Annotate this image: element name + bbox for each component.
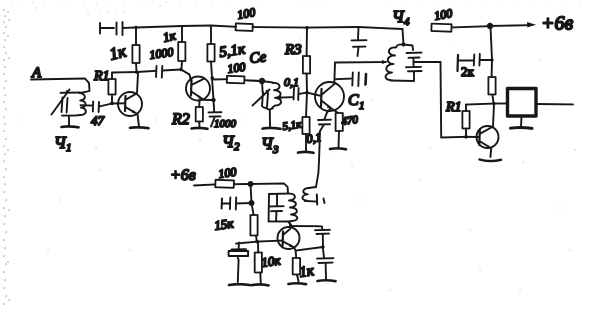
wire C1 collector to L4 — [335, 61, 386, 64]
wire cap 47 to Q1 base — [99, 103, 124, 106]
svg-text:100: 100 — [217, 165, 237, 181]
svg-text:+6в: +6в — [541, 13, 573, 35]
resistor 15k — [250, 203, 257, 242]
capacitor 1000 (emitter bypass) — [209, 100, 222, 127]
junction osc node2 — [249, 200, 255, 206]
svg-text:1к: 1к — [298, 263, 316, 281]
L4 tuning cap upper — [404, 45, 422, 63]
wire tank bottom to fb caps — [288, 222, 317, 227]
ground lead of L1 — [68, 116, 70, 126]
resistor 5,1k (Q2 collector load) — [207, 26, 214, 78]
wire base — [441, 136, 478, 139]
inductor L1 coil — [74, 93, 85, 116]
svg-text:5,1к: 5,1к — [218, 41, 247, 61]
capacitor 0,1 (mixer input) — [294, 88, 299, 101]
svg-text:2к: 2к — [461, 64, 475, 79]
wire osc emitter — [294, 247, 323, 251]
inductor L2 coil — [272, 83, 281, 108]
feedback capacitor upper — [315, 226, 330, 246]
svg-text:R1: R1 — [445, 100, 462, 115]
input terminal bar on rail — [99, 23, 101, 34]
ground Q5 emitter — [480, 160, 502, 162]
capacitor at node2 — [222, 198, 252, 210]
resistor 10k — [255, 242, 262, 283]
transistor Q4 (oscillator) — [278, 222, 300, 249]
ground 470 — [330, 147, 346, 151]
box quartz filter — [508, 89, 537, 117]
wire cap to node — [123, 27, 136, 30]
wire osc base — [236, 241, 283, 244]
wire L4 tap to output — [414, 61, 441, 63]
node big junction (L2 top) — [259, 78, 265, 84]
svg-text:3: 3 — [272, 144, 279, 156]
L4 tuning cap lower — [406, 62, 422, 81]
resistor 1k (first stage collector load) — [132, 28, 139, 72]
wire coil tap to cap 47 — [81, 104, 93, 106]
svg-text:1к: 1к — [107, 41, 129, 64]
ground 1k — [289, 282, 307, 286]
junction collector node — [492, 102, 496, 106]
junction base node — [464, 135, 468, 139]
capacitor to rail (decoupling) — [352, 27, 367, 56]
svg-text:10к: 10к — [260, 252, 282, 270]
svg-text:4: 4 — [404, 16, 410, 28]
svg-text:1000: 1000 — [214, 118, 237, 130]
svg-text:+6в: +6в — [170, 167, 196, 184]
ground box — [511, 126, 533, 130]
svg-text:R1: R1 — [93, 69, 110, 84]
resistor R1 (output base) — [462, 105, 469, 137]
tank L1 : top wire — [61, 92, 81, 94]
svg-text:Се: Се — [249, 49, 268, 67]
wire rail segment — [136, 26, 236, 28]
wire +6V node down — [491, 26, 493, 60]
svg-text:1: 1 — [359, 100, 365, 112]
wire rail segment to L4 — [358, 27, 403, 29]
svg-text:100: 100 — [236, 5, 256, 22]
wire base node into Q2 — [181, 70, 191, 83]
svg-text:15к: 15к — [213, 215, 235, 233]
capacitor near 2k — [458, 54, 492, 66]
junction base node osc — [255, 240, 259, 244]
node +6V big junction — [487, 23, 493, 29]
resistor 100 (rail right) — [431, 24, 489, 32]
junction osc node1 — [248, 181, 254, 187]
capacitor on rail (left) — [117, 22, 123, 35]
svg-text:1000: 1000 — [148, 45, 174, 62]
capacitor at node2 terminal bar — [221, 199, 223, 209]
svg-text:С: С — [348, 92, 359, 109]
tank L2 left lead — [261, 81, 264, 92]
resistor 2k — [488, 60, 495, 104]
junction R3/base — [305, 91, 309, 95]
junction coil tap — [278, 96, 282, 100]
junction Q2 base node — [179, 68, 183, 72]
svg-text:100: 100 — [226, 60, 246, 76]
junction emitter node osc — [321, 245, 325, 249]
resistor 100 (osc supply) — [215, 180, 249, 188]
node wire (collector node y=72) — [112, 71, 156, 73]
capacitor 0,1 (emitter, to injection line) — [318, 113, 331, 132]
scan noise dots left border — [4, 10, 9, 304]
ground R2 — [192, 127, 208, 130]
resistor R3 (mixer bias) — [303, 28, 310, 93]
wire terminal to cap — [101, 27, 115, 29]
wire collector node — [466, 103, 507, 104]
wire tap to cap 0,1 — [280, 96, 292, 98]
transistor Q2 — [186, 77, 210, 101]
wire down right side — [440, 62, 443, 138]
junction emitter node — [211, 98, 215, 102]
wire rail to transformer top — [403, 29, 404, 45]
coupling coil (injection secondary) — [302, 187, 324, 205]
resistor 100 (rail, left) — [236, 23, 253, 31]
junction — [135, 70, 139, 74]
electrolytic capacitor — [229, 243, 249, 282]
resistor 1k (osc emitter) — [293, 251, 300, 282]
scan noise dots top border — [12, 2, 581, 12]
variable capacitor of L2 tank — [262, 92, 268, 107]
svg-text:5,1к: 5,1к — [282, 118, 303, 133]
capacitor 47 — [93, 102, 99, 113]
capacitor (open stub) terminal bar — [456, 55, 459, 71]
ground lead box — [520, 117, 523, 127]
wire cap to C1 base — [299, 93, 321, 96]
feedback capacitor lower — [317, 247, 334, 279]
svg-text:1: 1 — [66, 142, 72, 154]
resistor R1 (feedback bias) — [108, 73, 115, 104]
svg-text:100: 100 — [433, 6, 453, 23]
trimmer arrow — [52, 90, 70, 115]
wire cap to Q2 base node — [163, 70, 182, 71]
variable capacitor of L1 tank — [62, 98, 68, 113]
wire rail segment mid — [236, 26, 358, 29]
transistor Q1 — [118, 73, 142, 127]
ground Q1 emitter — [130, 126, 149, 130]
resistor 1k (Q2 bias) — [178, 26, 185, 70]
svg-text:1к: 1к — [162, 27, 178, 44]
ground L2 — [263, 127, 281, 130]
wire junction to tank — [248, 81, 273, 83]
svg-text:470: 470 — [341, 114, 360, 128]
resistor 100 (collector decoupling, middle) — [214, 76, 260, 84]
tank left side — [268, 194, 270, 221]
inductor L4 primary coil — [386, 44, 404, 80]
ground L1 — [62, 125, 79, 128]
resistor R2 (emitter) — [196, 100, 203, 128]
wire emitter node — [327, 109, 331, 113]
junction L4 top — [402, 43, 406, 47]
junction cap node — [490, 58, 493, 61]
resistor 470 (emitter) — [332, 109, 343, 148]
junction base node — [110, 102, 114, 106]
wire box output — [537, 103, 574, 105]
ground 5,1k — [298, 151, 314, 154]
svg-text:R3: R3 — [284, 42, 302, 58]
svg-text:2: 2 — [234, 141, 240, 153]
capacitor on C1 collector (neutralizing) — [336, 73, 366, 87]
wire Q2 emitter — [201, 99, 214, 101]
L4 bottom wire — [391, 80, 415, 83]
junction collector tap — [211, 76, 215, 80]
wire injection line from oscillator — [316, 131, 320, 187]
oscillator tank: top wire — [269, 193, 288, 195]
trimmer arrow L2 — [253, 90, 270, 106]
transistor Q5 (output) — [477, 104, 499, 157]
svg-text:R2: R2 — [171, 111, 190, 128]
junction — [134, 26, 138, 30]
ground electrolytic — [229, 283, 250, 286]
ground fb cap — [318, 279, 336, 283]
resistor 5,1k (mixer base bias lower) — [302, 93, 309, 151]
wire node1 down to node2 — [251, 184, 252, 203]
ground lead L2 — [269, 110, 271, 127]
wire antenna lead — [31, 79, 90, 93]
wire node1 to tank — [251, 184, 289, 194]
wire supply stub — [194, 184, 215, 185]
transistor C1 (mixer) — [315, 63, 344, 112]
tank L1 bottom wire — [62, 115, 75, 117]
svg-text:47: 47 — [91, 113, 105, 128]
inductor L osc coil — [288, 194, 297, 222]
svg-text:0,1: 0,1 — [284, 75, 299, 89]
ground 10k — [252, 283, 269, 287]
tank bottom wire — [269, 220, 288, 222]
capacitor 1000 (coupling to 2nd stage) — [156, 66, 162, 78]
tank L2 bottom — [263, 107, 273, 110]
junction R3 top on rail — [305, 26, 309, 30]
wire Q2 collector — [212, 78, 214, 100]
tank capacitor — [270, 194, 284, 221]
wire rail arrow — [490, 24, 528, 27]
